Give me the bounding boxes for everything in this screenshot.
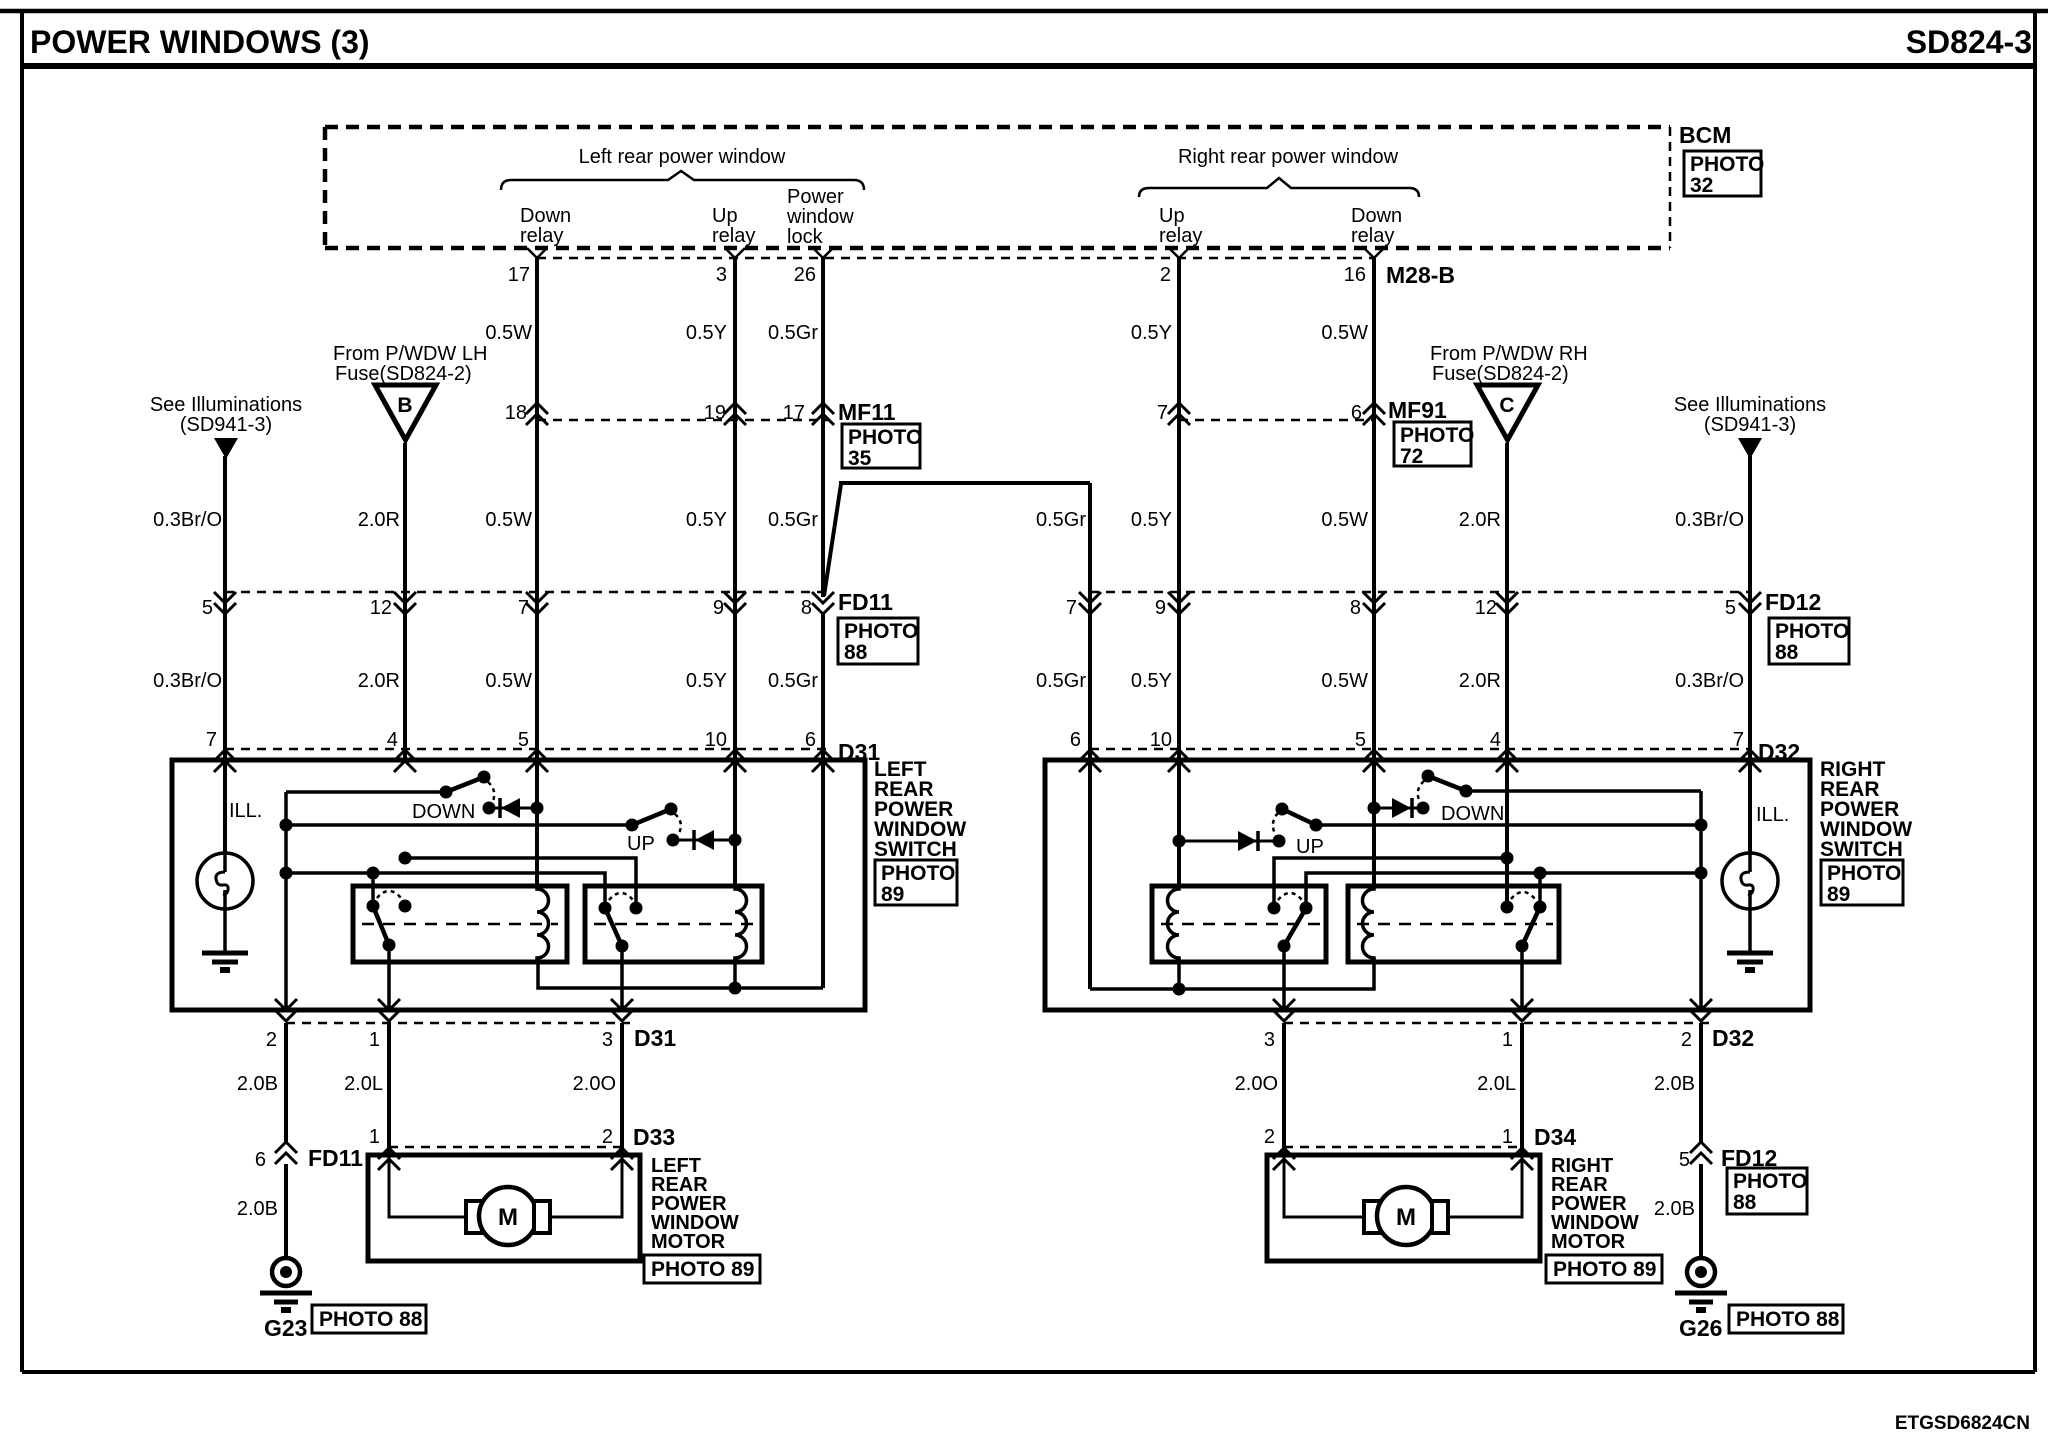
svg-text:10: 10	[705, 729, 727, 751]
svg-text:7: 7	[1066, 597, 1077, 619]
connector triangle B	[375, 385, 436, 440]
svg-text:G23: G23	[264, 1315, 307, 1341]
svg-text:(SD941-3): (SD941-3)	[180, 414, 272, 436]
junction coil common left	[729, 982, 742, 995]
svg-text:Up: Up	[712, 205, 738, 227]
wire down switch feed left	[286, 790, 446, 794]
junction diode to 0.5Y right	[1173, 835, 1186, 848]
wire to D31 pin 1	[387, 945, 391, 1010]
junction ground branch right	[1695, 867, 1708, 880]
connector D33 pin 2 symbol	[611, 1148, 633, 1170]
junction down lever pivot left	[440, 786, 453, 799]
svg-text:POWER WINDOWS (3): POWER WINDOWS (3)	[30, 24, 370, 60]
up contact left	[667, 834, 680, 847]
junction 2.0R branch left	[399, 852, 412, 865]
wire 0.5Gr left (window lock)	[821, 258, 825, 597]
svg-text:Left rear power window: Left rear power window	[579, 146, 786, 168]
svg-text:D31: D31	[634, 1025, 676, 1051]
page bottom border	[22, 1370, 2035, 1374]
down relay coil right	[1363, 887, 1375, 960]
svg-text:5: 5	[1355, 729, 1366, 751]
right motor PHOTO 89 box	[1546, 1255, 1662, 1283]
svg-text:B: B	[397, 394, 412, 417]
svg-text:D33: D33	[633, 1124, 675, 1150]
svg-text:0.5W: 0.5W	[1321, 509, 1368, 531]
down switch throw arc left	[488, 782, 494, 803]
motor brush left b	[534, 1201, 550, 1233]
junction diode to 0.5W right	[1368, 802, 1381, 815]
title separator line	[22, 63, 2035, 69]
down relay contact left	[399, 900, 412, 913]
svg-text:5: 5	[1725, 597, 1736, 619]
junction diode to 0.5W left	[531, 802, 544, 815]
svg-text:Down: Down	[1351, 205, 1402, 227]
svg-text:2: 2	[602, 1126, 613, 1148]
left switch PHOTO 89 box	[875, 860, 957, 906]
FD11 PHOTO 88 box	[838, 618, 918, 664]
wire 0.5Gr cross link	[824, 483, 1090, 596]
down relay pivot left	[367, 900, 380, 913]
connector FD11 pin 8 symbol	[812, 592, 834, 614]
wire up switch feed left	[286, 823, 632, 827]
motor brush right b	[1432, 1201, 1448, 1233]
svg-text:UP: UP	[627, 833, 655, 855]
up relay contact left	[630, 902, 643, 915]
FD12 PHOTO 88 box	[1727, 1168, 1807, 1214]
wire 0.5Gr to coil common right	[1088, 761, 1092, 989]
up switch throw arc right	[1273, 813, 1278, 836]
connector M28-B pin 16 symbol	[1364, 248, 1384, 258]
down relay lever end left	[383, 939, 396, 952]
BCM dashed box top edge	[325, 125, 1670, 130]
svg-text:89: 89	[881, 883, 904, 906]
wire to D31 pin 3	[620, 946, 624, 1010]
connector FD12 pin 5 symbol	[1739, 592, 1761, 614]
svg-text:6: 6	[1351, 402, 1362, 424]
FD12 PHOTO 88 box	[1769, 618, 1849, 664]
right rear power window switch box	[1045, 760, 1810, 1010]
junction ground to up feed right	[1695, 819, 1708, 832]
svg-text:0.5W: 0.5W	[1321, 322, 1368, 344]
wire 0.5Y right (up relay)	[1177, 258, 1181, 761]
down relay throw arc right	[1511, 892, 1535, 899]
svg-text:0.3Br/O: 0.3Br/O	[153, 509, 222, 531]
svg-text:0.5W: 0.5W	[485, 670, 532, 692]
connector D31 pin 7 symbol	[214, 750, 236, 772]
svg-text:M28-B: M28-B	[1386, 262, 1455, 288]
ground G26	[1675, 1258, 1727, 1310]
connector D31 pin 6 symbol	[812, 750, 834, 772]
svg-text:D34: D34	[1534, 1124, 1576, 1150]
wire 0.5Gr right vertical	[1088, 483, 1092, 761]
wire 0.5W left (down relay)	[535, 258, 539, 761]
svg-text:7: 7	[1733, 729, 1744, 751]
page left border	[20, 11, 24, 1372]
up switch throw arc left	[675, 814, 681, 835]
connector FD11 pin 12 symbol	[394, 592, 416, 614]
wire 2.0R to up relay contact right	[1274, 858, 1507, 908]
wire ground to relay pivots right	[1306, 873, 1701, 908]
svg-text:7: 7	[206, 729, 217, 751]
svg-text:2.0R: 2.0R	[358, 670, 400, 692]
connector D32 pin 4 symbol	[1496, 750, 1518, 772]
down switch lever right	[1428, 776, 1466, 791]
connector FD11 pin 6 symbol	[275, 1142, 297, 1164]
svg-text:0.5Gr: 0.5Gr	[768, 670, 818, 692]
up lever tip left	[665, 803, 678, 816]
svg-text:0.5W: 0.5W	[1321, 670, 1368, 692]
wire 2.0B to ground G23	[284, 1164, 288, 1258]
connector D34 pin 1 symbol	[1511, 1148, 1533, 1170]
svg-text:MOTOR: MOTOR	[1551, 1231, 1626, 1253]
up relay lever end left	[616, 940, 629, 953]
wire coil common link left	[538, 958, 823, 988]
svg-text:SD824-3: SD824-3	[1906, 24, 2032, 60]
svg-text:MF91: MF91	[1388, 397, 1447, 423]
svg-text:88: 88	[844, 641, 868, 664]
svg-text:From P/WDW RH: From P/WDW RH	[1430, 343, 1588, 365]
G23 PHOTO 88 box	[312, 1305, 426, 1333]
connector MF91 pin 7 symbol	[1168, 403, 1190, 425]
svg-text:PHOTO: PHOTO	[1690, 153, 1764, 176]
connector D31 pin 10 symbol	[724, 750, 746, 772]
svg-text:ILL.: ILL.	[229, 800, 262, 822]
connector D31 pin 4 symbol	[394, 750, 416, 772]
left rear power window motor box	[368, 1155, 640, 1261]
svg-text:0.3Br/O: 0.3Br/O	[153, 670, 222, 692]
wire 0.5Gr left lower segment	[821, 614, 825, 761]
svg-text:3: 3	[1264, 1029, 1275, 1051]
svg-text:MOTOR: MOTOR	[651, 1231, 726, 1253]
connector D31 pin 1 symbol	[378, 999, 400, 1021]
up relay dashed link left	[594, 923, 756, 926]
wire switch common (ground) right	[1699, 791, 1703, 1010]
svg-text:17: 17	[783, 402, 805, 424]
up relay contact right	[1268, 902, 1281, 915]
down relay pivot right	[1534, 901, 1547, 914]
svg-text:2.0B: 2.0B	[1654, 1073, 1695, 1095]
lamp ground right	[1727, 909, 1773, 970]
down relay lever end right	[1516, 940, 1529, 953]
wire 2.0O right	[1282, 1023, 1286, 1155]
svg-text:10: 10	[1150, 729, 1172, 751]
lamp ground left	[202, 909, 248, 970]
wire to illumination lamp left	[223, 761, 227, 853]
connector D33 pin 1 symbol	[378, 1148, 400, 1170]
svg-text:2.0R: 2.0R	[1459, 670, 1501, 692]
svg-text:DOWN: DOWN	[412, 801, 475, 823]
wire pivot drop right	[1538, 873, 1542, 907]
down lever tip left	[478, 771, 491, 784]
svg-text:FD12: FD12	[1765, 589, 1821, 615]
up relay throw arc left	[609, 893, 633, 900]
left rear power window switch box	[172, 760, 865, 1010]
svg-text:2: 2	[1160, 264, 1171, 286]
svg-text:3: 3	[716, 264, 727, 286]
svg-text:0.5Gr: 0.5Gr	[768, 509, 818, 531]
connector FD12 pin 7 symbol	[1079, 592, 1101, 614]
wire 2.0B right upper	[1699, 1023, 1703, 1142]
svg-text:1: 1	[1502, 1029, 1513, 1051]
motor M2 circle	[1377, 1187, 1435, 1245]
svg-text:From P/WDW LH: From P/WDW LH	[333, 343, 487, 365]
svg-text:0.5Y: 0.5Y	[686, 670, 727, 692]
wire up coil bottom stub right	[1177, 958, 1181, 989]
svg-text:2.0B: 2.0B	[1654, 1198, 1695, 1220]
svg-text:(SD941-3): (SD941-3)	[1704, 414, 1796, 436]
connector D31 pin 5 symbol	[526, 750, 548, 772]
svg-text:FD11: FD11	[838, 589, 893, 615]
up relay lever right	[1284, 908, 1306, 946]
up switch lever left	[632, 809, 671, 825]
motor wire right b	[1448, 1155, 1522, 1217]
wire 2.0L left	[387, 1023, 391, 1155]
up relay lever end right	[1278, 940, 1291, 953]
svg-text:Fuse(SD824-2): Fuse(SD824-2)	[1432, 363, 1569, 385]
down lever tip right	[1422, 770, 1435, 783]
svg-text:6: 6	[805, 729, 816, 751]
svg-text:6: 6	[1070, 729, 1081, 751]
wire 2.0B to ground G26	[1699, 1164, 1703, 1258]
wire down switch feed right	[1466, 789, 1701, 793]
connector MF91 dashed line	[1179, 419, 1374, 422]
junction down relay pivot feed left	[367, 867, 380, 880]
svg-text:D32: D32	[1712, 1025, 1754, 1051]
arrow to illuminations right	[1738, 438, 1762, 459]
svg-text:8: 8	[801, 597, 812, 619]
connector FD12 pin 8 symbol	[1363, 592, 1385, 614]
connector M28-B pin 26 symbol	[813, 248, 833, 258]
up relay coil right	[1168, 887, 1180, 960]
svg-text:88: 88	[1733, 1191, 1757, 1214]
svg-text:PHOTO: PHOTO	[1733, 1170, 1807, 1193]
wire 0.5Gr to coil common left	[821, 761, 825, 988]
down relay contact box right	[1348, 886, 1559, 962]
connector D32 pin 1 symbol	[1511, 999, 1533, 1021]
illumination lamp right	[1722, 853, 1778, 909]
brace right rear power window	[1139, 178, 1419, 197]
svg-text:1: 1	[369, 1126, 380, 1148]
connector MF11 pin 17 symbol	[812, 403, 834, 425]
connector D34 pin 2 symbol	[1273, 1148, 1295, 1170]
down relay lever right	[1522, 907, 1540, 946]
connector D32 pin 2 symbol	[1690, 999, 1712, 1021]
wire up switch feed right	[1316, 823, 1701, 827]
svg-text:2.0R: 2.0R	[358, 509, 400, 531]
svg-text:0.5W: 0.5W	[485, 322, 532, 344]
connector FD12 pin 9 symbol	[1168, 592, 1190, 614]
wire 2.0R to contact right	[1505, 761, 1509, 907]
svg-text:0.5W: 0.5W	[485, 509, 532, 531]
wire to illumination lamp right	[1748, 761, 1752, 853]
motor brush right a	[1364, 1201, 1380, 1233]
down relay coil left	[537, 887, 549, 960]
up relay pivot left	[599, 902, 612, 915]
junction 2.0R branch right	[1501, 852, 1514, 865]
svg-text:7: 7	[518, 597, 529, 619]
svg-text:6: 6	[255, 1149, 266, 1171]
connector D32 pin 5 symbol	[1363, 750, 1385, 772]
up relay throw arc right	[1278, 893, 1302, 900]
svg-text:0.5Y: 0.5Y	[686, 509, 727, 531]
junction up lever pivot left	[626, 819, 639, 832]
svg-text:2: 2	[266, 1029, 277, 1051]
wire ground to relay pivots left	[286, 873, 605, 908]
connector FD12 pin 5 symbol	[1690, 1142, 1712, 1164]
svg-text:PHOTO: PHOTO	[881, 862, 955, 885]
svg-text:PHOTO: PHOTO	[1400, 424, 1474, 447]
svg-text:PHOTO: PHOTO	[1827, 862, 1901, 885]
svg-text:72: 72	[1400, 445, 1423, 468]
svg-text:19: 19	[704, 402, 726, 424]
connector D31 pin 3 symbol	[611, 999, 633, 1021]
svg-text:2.0B: 2.0B	[237, 1198, 278, 1220]
ground G23	[260, 1258, 312, 1310]
down contact right	[1417, 802, 1430, 815]
wire 0.3Br/O left (illumination)	[223, 456, 227, 761]
motor wire left a	[389, 1155, 466, 1217]
wire 0.5W right (down relay)	[1372, 258, 1376, 761]
up relay coil left	[735, 887, 746, 960]
svg-text:Up: Up	[1159, 205, 1185, 227]
svg-text:1: 1	[1502, 1126, 1513, 1148]
svg-text:Power: Power	[787, 186, 844, 208]
connector M28-B pin 2 symbol	[1169, 248, 1189, 258]
down contact left	[483, 802, 496, 815]
connector D32 pin 3 symbol	[1273, 999, 1295, 1021]
svg-text:PHOTO 88: PHOTO 88	[1736, 1308, 1840, 1331]
connector FD11 pin 7 symbol	[526, 592, 548, 614]
diode up right	[1179, 831, 1279, 851]
connector D32 dashed line	[1090, 748, 1750, 751]
svg-text:window: window	[786, 206, 854, 228]
svg-text:35: 35	[848, 447, 872, 470]
junction coil common right	[1173, 983, 1186, 996]
right switch PHOTO 89 box	[1821, 860, 1903, 906]
svg-text:PHOTO 88: PHOTO 88	[319, 1308, 423, 1331]
svg-text:89: 89	[1827, 883, 1850, 906]
wire 2.0R left (from fuse B)	[403, 443, 407, 761]
svg-text:UP: UP	[1296, 836, 1324, 858]
MF91 PHOTO 72 box	[1394, 422, 1474, 468]
wire 2.0O left	[620, 1023, 624, 1155]
illumination lamp left	[197, 853, 253, 909]
svg-text:G26: G26	[1679, 1315, 1722, 1341]
svg-text:0.5Y: 0.5Y	[1131, 322, 1172, 344]
svg-text:0.5Gr: 0.5Gr	[1036, 670, 1086, 692]
up contact right	[1273, 835, 1286, 848]
wire 2.0R to up relay contact left	[405, 858, 636, 908]
left motor PHOTO 89 box	[644, 1255, 760, 1283]
wire 2.0R right (from fuse C)	[1505, 443, 1509, 761]
connector FD12 dashed line	[1090, 591, 1749, 594]
BCM dashed box bottom edge	[325, 246, 1670, 251]
svg-text:2.0L: 2.0L	[344, 1073, 383, 1095]
junction down relay pivot feed right	[1534, 867, 1547, 880]
svg-text:18: 18	[505, 402, 527, 424]
svg-text:0.5Gr: 0.5Gr	[768, 322, 818, 344]
connector D31 bottom dashed line	[286, 1022, 630, 1025]
junction down lever pivot right	[1460, 785, 1473, 798]
up relay pivot right	[1300, 902, 1313, 915]
up switch lever right	[1282, 809, 1316, 825]
page right border	[2033, 11, 2037, 1372]
svg-text:PHOTO 89: PHOTO 89	[1553, 1258, 1656, 1281]
connector FD12 pin 12 symbol	[1496, 592, 1518, 614]
svg-text:PHOTO: PHOTO	[848, 426, 922, 449]
connector D31 pin 2 symbol	[275, 999, 297, 1021]
svg-text:0.5Y: 0.5Y	[686, 322, 727, 344]
svg-text:32: 32	[1690, 174, 1713, 197]
svg-text:relay: relay	[712, 225, 755, 247]
up lever tip right	[1276, 803, 1289, 816]
connector MF11 pin 19 symbol	[724, 403, 746, 425]
svg-text:12: 12	[1475, 597, 1497, 619]
svg-text:relay: relay	[520, 225, 563, 247]
svg-text:2.0B: 2.0B	[237, 1073, 278, 1095]
down switch throw arc right	[1418, 781, 1424, 802]
svg-text:ETGSD6824CN: ETGSD6824CN	[1895, 1413, 2030, 1434]
svg-text:7: 7	[1157, 402, 1168, 424]
svg-text:DOWN: DOWN	[1441, 803, 1504, 825]
svg-text:2.0L: 2.0L	[1477, 1073, 1516, 1095]
diode down left	[489, 798, 537, 818]
connector MF91 pin 6 symbol	[1363, 403, 1385, 425]
svg-text:4: 4	[1490, 729, 1501, 751]
connector M28-B pin 17 symbol	[527, 248, 547, 258]
svg-text:5: 5	[1679, 1149, 1690, 1171]
junction ground branch left	[280, 867, 293, 880]
svg-text:M: M	[498, 1204, 518, 1231]
connector D31 dashed line	[225, 748, 830, 751]
svg-text:12: 12	[370, 597, 392, 619]
diode up left	[673, 830, 735, 850]
connector D32 pin 7 symbol	[1739, 750, 1761, 772]
page top border	[0, 9, 2048, 14]
svg-text:0.5Y: 0.5Y	[1131, 509, 1172, 531]
svg-text:Right rear power window: Right rear power window	[1178, 146, 1399, 168]
motor brush left a	[466, 1201, 482, 1233]
svg-text:2: 2	[1264, 1126, 1275, 1148]
wire switch common (ground) left	[284, 792, 288, 1010]
up relay contact box left	[585, 886, 762, 962]
wire 0.5Y left (up relay)	[733, 258, 737, 761]
svg-text:9: 9	[1155, 597, 1166, 619]
svg-text:2.0O: 2.0O	[573, 1073, 616, 1095]
down relay throw arc left	[377, 891, 401, 898]
svg-text:MF11: MF11	[838, 399, 896, 425]
down switch lever left	[446, 777, 484, 792]
svg-text:See Illuminations: See Illuminations	[150, 394, 302, 416]
svg-text:3: 3	[602, 1029, 613, 1051]
junction up lever pivot right	[1310, 819, 1323, 832]
down relay dashed link right	[1357, 923, 1553, 926]
MF11 PHOTO 35 box	[842, 424, 922, 470]
up relay lever left	[605, 908, 622, 946]
svg-text:9: 9	[713, 597, 724, 619]
diode down right	[1374, 798, 1423, 818]
wire 2.0B left upper	[284, 1023, 288, 1142]
connector MF11 pin 18 symbol	[526, 403, 548, 425]
svg-text:16: 16	[1344, 264, 1366, 286]
connector FD11 pin 9 symbol	[724, 592, 746, 614]
brace left rear power window	[501, 171, 864, 190]
connector D33 dashed line	[389, 1146, 622, 1149]
wire up coil bottom stub left	[733, 958, 737, 988]
connector MF11 dashed line	[537, 419, 830, 422]
svg-text:8: 8	[1350, 597, 1361, 619]
svg-text:SWITCH: SWITCH	[874, 838, 957, 861]
